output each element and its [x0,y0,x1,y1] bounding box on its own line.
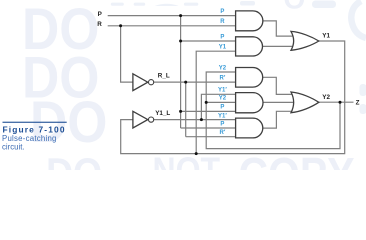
wire Y2 branch to G4 [206,101,235,103]
watermark top fragments [111,1,255,6]
wire R_L out to G3 [154,81,236,83]
svg-text:Y1′: Y1′ [218,113,227,119]
wire Y1' branch to G4 [201,94,235,119]
wire G2 out to OR1 [263,45,293,47]
svg-text:DO: DO [46,150,102,170]
wire R vertical to INV1 [121,26,133,82]
AND gate G2 [236,37,263,56]
watermark DO row3 [30,89,107,154]
watermark bottom NOT [153,151,221,191]
wire Y1 branch to G2 [196,51,235,153]
wire P top [108,15,236,17]
wire Y1 out [121,41,345,154]
node Y1 junction bottom [195,152,198,155]
svg-text:P: P [220,9,224,15]
svg-text:P: P [220,122,224,128]
wire G3 out to OR2 [263,77,293,94]
svg-text:Y2: Y2 [219,65,227,71]
watermark right-edge blobs [360,84,366,96]
node R junction [119,24,122,27]
wire Y2 feedback [206,72,340,149]
svg-text:Y1: Y1 [219,45,227,51]
svg-text:Y2: Y2 [219,96,227,102]
svg-text:COPY: COPY [239,150,355,170]
svg-text:Figure 7-100: Figure 7-100 [3,125,66,135]
svg-text:R: R [220,19,225,25]
svg-text:P: P [98,11,102,18]
svg-text:P: P [220,105,224,111]
inverter INV2 bubble [149,117,154,122]
wire G5 out to OR2 [263,111,293,128]
wire G1 out to OR1 [263,21,293,36]
wire P to G4 [181,110,236,112]
svg-text:Z: Z [356,100,360,107]
svg-text:P: P [220,34,224,40]
watermark top-right P bottom [312,1,336,9]
node P junction G4 [179,110,182,113]
wire P vertical [180,16,182,128]
node P junction G2 [179,40,182,43]
OR gate OR1 [291,31,319,50]
svg-text:Y1_L: Y1_L [155,110,170,117]
AND gate G3 [236,68,263,88]
svg-text:circuit.: circuit. [2,143,25,152]
wire P to G2 [181,40,236,42]
svg-text:R′: R′ [220,130,226,136]
node Y1' junction [200,118,203,121]
svg-text:R′: R′ [220,76,226,82]
node Y2 junction G4 [205,101,208,104]
svg-text:R_L: R_L [158,73,170,80]
AND gate G5 [236,118,263,138]
wire P to G5 [181,127,236,129]
inverter INV1 triangle [133,74,148,91]
svg-text:Y1: Y1 [322,33,330,40]
node R' junction [184,81,187,84]
caption rule [3,122,67,123]
node Y2 output junction [339,101,342,104]
AND gate G4 [236,93,263,113]
svg-text:R: R [97,21,102,28]
AND gate G1 [236,11,263,31]
wire R' to G5 [186,136,236,138]
watermark DO row2 [22,44,99,109]
watermark bottom COPY [239,150,355,201]
watermark right curve [351,1,366,38]
wire R top [108,25,236,27]
wire Y1_L out to G5 [154,119,236,121]
svg-text:Y2: Y2 [322,94,330,101]
wire Y2 out to Z [319,101,354,103]
wire G4 out to OR2 [263,101,293,103]
watermark DO row1 [22,0,99,61]
OR gate OR2 [291,92,319,113]
wire R' vertical [185,82,187,137]
svg-text:O: O [284,0,306,15]
inverter INV2 triangle [133,111,148,128]
inverter INV1 bubble [149,80,154,85]
svg-text:Y1′: Y1′ [218,88,227,94]
watermark bottom DO [46,150,102,196]
node P junction top [179,14,182,17]
